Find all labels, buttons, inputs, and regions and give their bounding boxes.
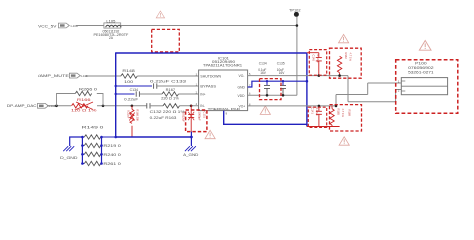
svg-text:220 Ω 1%: 220 Ω 1%	[161, 97, 179, 101]
wire parallel bracket R266	[57, 94, 104, 106]
connector tag VCC_5V	[59, 23, 78, 28]
warning triangle T6	[419, 41, 431, 51]
svg-text:BYPASS: BYPASS	[200, 85, 217, 89]
wire R166 to junction	[97, 105, 146, 107]
wire VDD row	[248, 94, 297, 96]
wire blue row3 stub	[116, 93, 135, 95]
highlight box B4 (R164)	[330, 48, 362, 78]
wire blue bottom network left bus	[81, 137, 83, 164]
wire blue main vertical	[115, 52, 117, 137]
op-amp U IC101 labels	[203, 56, 242, 67]
resistor R149	[82, 126, 116, 140]
connector tag /AMP_MUTE	[69, 73, 87, 78]
svg-text:/AMP_MUTE: /AMP_MUTE	[38, 73, 69, 78]
svg-text:0.22uF: 0.22uF	[126, 110, 130, 119]
capacitor C132	[147, 103, 185, 120]
resistor R219	[82, 143, 121, 148]
pin THERMAL PAD	[208, 107, 242, 115]
svg-text:IN+: IN+	[200, 93, 205, 97]
wire blue thermal pad drop	[224, 111, 307, 125]
svg-text:C140: C140	[312, 55, 316, 62]
resistor R266	[75, 87, 97, 95]
wire blue row2 stub	[116, 85, 152, 87]
svg-text:C134: C134	[130, 88, 139, 92]
junction TP node	[296, 24, 299, 27]
highlight box B6 (connector)	[396, 60, 458, 113]
wire MUTE to R148	[85, 75, 121, 77]
svg-text:R165: R165	[337, 109, 341, 116]
connector P100 body	[401, 78, 447, 95]
node VCC_5V	[38, 23, 57, 28]
resistor deleted vertical at 132	[129, 106, 134, 137]
wire blue GND right vertical	[306, 53, 308, 127]
junction right of R166	[102, 105, 105, 108]
svg-text:R240 0: R240 0	[103, 153, 121, 157]
svg-text:R164: R164	[344, 53, 348, 60]
op-amp IC101 body	[199, 70, 248, 111]
label C140	[312, 55, 321, 64]
svg-text:0.22uF C133: 0.22uF C133	[150, 80, 186, 84]
label R165	[337, 109, 352, 118]
svg-text:R261 0: R261 0	[103, 162, 121, 166]
label R166	[71, 98, 97, 112]
svg-text:A_GND: A_GND	[183, 153, 199, 157]
connector tag DP-AMP_DAC	[38, 103, 56, 108]
svg-text:SHUTDOWN: SHUTDOWN	[200, 75, 221, 79]
wire C132 to R163	[150, 105, 163, 107]
junction C141	[318, 105, 321, 108]
highlight box B5b (C141)	[308, 107, 326, 127]
svg-text:0.022uF: 0.022uF	[182, 112, 186, 122]
highlight box B4b (C140)	[309, 50, 326, 76]
capacitor C134b	[264, 81, 270, 95]
resistor R166 (deleted)	[72, 102, 94, 110]
svg-text:R149 0: R149 0	[82, 126, 104, 130]
warning triangle T3	[205, 130, 215, 138]
svg-text:0.22uF: 0.22uF	[315, 108, 319, 117]
svg-text:R266 0: R266 0	[79, 87, 97, 91]
svg-text:0.22uF: 0.22uF	[316, 55, 320, 64]
wire D_GND elbow	[70, 137, 83, 146]
warning triangle T7	[260, 106, 270, 114]
svg-text:IN-: IN-	[200, 104, 204, 108]
resistor R167	[161, 88, 179, 100]
resistor R261	[82, 161, 121, 166]
wire blue GND top horizontal	[116, 52, 307, 54]
junction IN-	[190, 105, 193, 108]
junction row4 at deleted R	[131, 105, 134, 108]
svg-text:1000pF: 1000pF	[198, 112, 202, 121]
capacitor C133	[150, 80, 186, 89]
svg-text:100: 100	[124, 80, 133, 84]
svg-text:0.22uF: 0.22uF	[124, 97, 138, 101]
wire R167 to IN+	[179, 93, 199, 95]
label deleted resistor	[126, 109, 139, 121]
svg-text:TP102: TP102	[289, 8, 301, 12]
wire blue A_GND stub up to B2	[190, 132, 192, 146]
svg-text:R166: R166	[77, 98, 91, 102]
capacitor C141 snubber	[307, 106, 340, 127]
resistor R164 snubber	[337, 56, 341, 75]
wire C133 to BYPASS	[157, 85, 199, 87]
pin numbers IC101	[196, 73, 251, 106]
capacitor deleted inside B2	[188, 105, 194, 132]
highlight box B2 (deleted cap at IN-)	[186, 110, 207, 132]
wire TP102 down to VDD row	[296, 17, 298, 96]
node DP-AMP_DAC	[7, 103, 37, 108]
wire R163 to IN-	[180, 105, 199, 107]
warning triangle T1	[156, 11, 164, 18]
svg-text:R168 20K: R168 20K	[135, 109, 139, 121]
svg-text:R169: R169	[348, 110, 352, 117]
warning triangle T2	[339, 34, 349, 42]
svg-text:VCC_5V: VCC_5V	[38, 23, 57, 28]
resistor R165 snubber	[330, 106, 334, 127]
ground D_GND	[60, 146, 78, 160]
resistor R163	[163, 104, 180, 108]
svg-text:DP-AMP_DAC: DP-AMP_DAC	[7, 103, 37, 108]
highlight box B1 (empty)	[152, 29, 180, 52]
svg-text:R148: R148	[122, 69, 135, 73]
svg-text:C132 220 Ω 1%: C132 220 Ω 1%	[150, 110, 185, 114]
svg-text:C141: C141	[311, 108, 315, 115]
wire blue GND pin elbow	[248, 81, 307, 87]
highlight box B3 (bypass caps)	[260, 79, 282, 100]
wire C134 to R167	[139, 93, 162, 95]
svg-text:C134: C134	[259, 61, 267, 65]
svg-text:0.22uF R163: 0.22uF R163	[150, 116, 177, 120]
svg-text:16V: 16V	[260, 71, 267, 75]
inductor L105	[104, 20, 121, 28]
svg-text:VO-: VO-	[239, 74, 245, 78]
testpoint TP102	[289, 8, 301, 17]
junction R165	[335, 105, 338, 108]
capacitor C134b bypass labels	[258, 61, 285, 75]
svg-text:C135: C135	[277, 61, 285, 65]
svg-text:4.7 1%: 4.7 1%	[341, 109, 345, 118]
svg-text:C131: C131	[203, 112, 207, 119]
wire DAC input	[47, 105, 71, 107]
wire blue A_GND row	[116, 136, 192, 138]
label left of B2	[182, 112, 186, 122]
value label L105	[94, 30, 129, 41]
label R164	[344, 53, 353, 62]
svg-text:TPA6211A1TDGNR1: TPA6211A1TDGNR1	[203, 63, 242, 67]
svg-text:D_GND: D_GND	[60, 156, 78, 160]
junction R149 row	[81, 136, 84, 139]
svg-text:110 Ω 1%: 110 Ω 1%	[71, 108, 97, 112]
svg-text:16V: 16V	[279, 71, 286, 75]
resistor R148	[121, 69, 138, 84]
wire VCC_5V to L105	[76, 25, 104, 27]
capacitor C140 snubber	[307, 53, 322, 76]
warning triangle T5	[339, 137, 349, 145]
svg-text:R219 0: R219 0	[103, 144, 121, 148]
capacitor C135	[280, 81, 286, 95]
junction caps to VDD row	[266, 94, 269, 97]
junction C140	[318, 74, 321, 77]
ground A_GND	[183, 146, 199, 157]
capacitor C134	[124, 88, 139, 101]
resistor R240	[82, 152, 121, 157]
svg-text:4.7 1%: 4.7 1%	[349, 53, 353, 62]
wire L105 to TP102 node	[121, 25, 297, 27]
label C141	[311, 108, 320, 117]
junction left of R166	[55, 105, 58, 108]
wire R148 to SHUTDOWN	[137, 75, 198, 77]
junction A_GND	[190, 136, 193, 139]
highlight box B5 (R165)	[330, 105, 362, 131]
svg-text:076056902: 076056902	[408, 66, 434, 70]
svg-text:P100: P100	[415, 61, 427, 65]
wire VO- output	[248, 76, 402, 102]
svg-text:GND: GND	[238, 86, 246, 90]
svg-text:53261-0271: 53261-0271	[408, 71, 434, 75]
junction R164	[338, 74, 341, 77]
label deleted cap	[198, 112, 207, 121]
junction blue at right vertical	[306, 80, 309, 83]
wire blue bottom network right bus	[101, 137, 103, 164]
svg-text:VDD: VDD	[238, 94, 246, 98]
connector P100 labels	[408, 61, 434, 74]
node /AMP_MUTE	[38, 73, 69, 78]
wire VO+ output	[248, 83, 402, 106]
svg-text:R167: R167	[166, 88, 176, 92]
